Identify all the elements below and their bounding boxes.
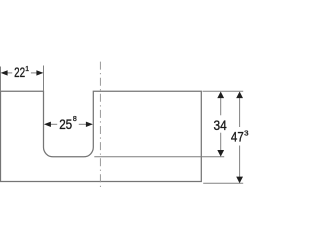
svg-text:22: 22	[14, 65, 25, 80]
dim 25.8 left arrow	[44, 122, 51, 127]
centerline	[99, 62, 101, 189]
svg-text:34: 34	[214, 118, 228, 133]
dim 47.3 up arrow	[236, 92, 243, 99]
dim 34 up arrow	[217, 92, 224, 99]
extension line notch-left (x=43.5)	[43, 66, 45, 92]
dim 22.1 left arrow	[1, 70, 8, 75]
top extension line right	[203, 90, 244, 92]
dim 22.1 right arrow	[36, 70, 43, 75]
dim 25.8 line stubs	[51, 123, 58, 125]
svg-text:8: 8	[73, 114, 77, 123]
dim 34 line segments	[220, 97, 222, 115]
dim 47.3 down arrow	[236, 177, 243, 184]
dim 22.1 line stubs	[7, 72, 12, 74]
panel outline with left notch	[1, 91, 202, 181]
extension line left (x=0.5 above panel)	[0, 67, 2, 92]
svg-text:25: 25	[59, 117, 72, 132]
dim 25.8 right arrow	[86, 122, 93, 127]
visible edge line at notch-bottom level extending right (also 34 extension)	[94, 156, 224, 158]
dim 47.3 line segments	[239, 97, 241, 127]
svg-text:3: 3	[244, 128, 248, 137]
svg-text:1: 1	[25, 64, 29, 73]
svg-text:47: 47	[231, 130, 244, 145]
dim 34 down arrow	[217, 150, 224, 157]
bottom extension line right	[203, 182, 243, 184]
